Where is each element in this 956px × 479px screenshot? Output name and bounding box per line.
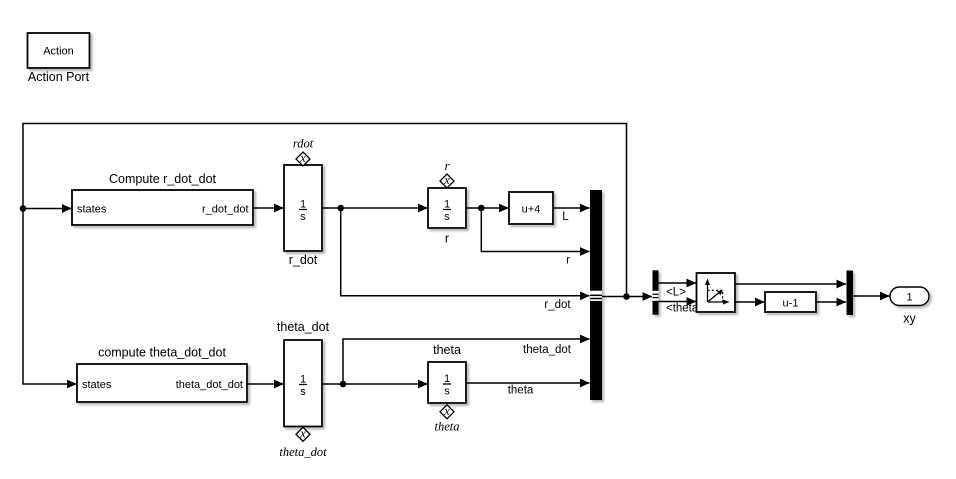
gain block u-1 (765, 292, 816, 312)
wire bus selector out <L> (659, 282, 697, 284)
svg-text:states: states (82, 379, 112, 391)
subsystem compute theta_dot_dot (77, 346, 247, 403)
svg-text:r: r (566, 255, 570, 267)
svg-text:s: s (444, 386, 450, 398)
integrator theta (428, 343, 466, 403)
icon horizontal axis (708, 301, 727, 303)
wire r_dot branch to Mux input 3 (341, 208, 590, 296)
logging badge integrator theta_dot (296, 426, 310, 441)
wire feedback loop from mux output back to subsystem inputs (23, 124, 627, 385)
svg-text:r_dot: r_dot (544, 299, 571, 311)
wire polar out2 to u-1 (735, 301, 765, 303)
junction node mux output / feedback (623, 293, 630, 300)
logging badge integrator r_dot (296, 151, 310, 166)
svg-text:s: s (300, 386, 306, 398)
svg-text:u+4: u+4 (522, 204, 541, 216)
wire u-1 to Mux2 (816, 301, 846, 303)
junction node states branch (20, 205, 27, 212)
svg-text:r_dot: r_dot (289, 253, 318, 267)
svg-text:Action: Action (43, 46, 74, 58)
junction node r_dot (337, 205, 344, 212)
icon dashed coords (708, 290, 723, 302)
svg-text:<L>: <L> (666, 287, 686, 299)
svg-text:1: 1 (300, 199, 306, 211)
gain block u+4 (509, 192, 553, 224)
svg-text:theta: theta (508, 385, 534, 397)
wire theta_dot branch to Mux input 4 (343, 339, 590, 384)
svg-text:1: 1 (906, 292, 912, 304)
integrator theta_dot (277, 320, 330, 427)
junction node theta_dot (340, 381, 347, 388)
Mux2 bar (847, 271, 854, 316)
svg-text:r: r (445, 159, 450, 173)
integrator r (428, 188, 466, 246)
integrator r_dot (284, 165, 322, 267)
wire polar out1 to Mux2 (735, 283, 846, 285)
icon diagonal vector (708, 292, 721, 302)
Action Port block (28, 33, 90, 68)
wire integrator r to u+4 (466, 207, 509, 209)
svg-text:compute theta_dot_dot: compute theta_dot_dot (98, 346, 226, 360)
subsystem Compute r_dot_dot (72, 172, 253, 225)
svg-text:L: L (562, 211, 569, 223)
svg-text:theta: theta (433, 343, 461, 357)
svg-text:theta_dot_dot: theta_dot_dot (176, 379, 243, 391)
junction node r (478, 205, 485, 212)
svg-text:s: s (300, 211, 306, 223)
svg-text:Compute r_dot_dot: Compute r_dot_dot (109, 172, 217, 186)
logging badge integrator theta (440, 404, 454, 419)
wire bus selector out <theta> (659, 301, 697, 303)
polar to cartesian block (697, 273, 736, 312)
logging badge integrator r (440, 173, 454, 188)
wire Mux1 to Bus Selector (602, 296, 652, 298)
svg-text:states: states (77, 204, 107, 216)
svg-text:xy: xy (903, 312, 916, 326)
Mux1 bar (590, 190, 602, 400)
wire u+4 to Mux input 1 (553, 207, 590, 209)
wire compute theta_dot_dot to integrator theta_dot (247, 383, 284, 385)
outport 1 xy (890, 287, 929, 306)
svg-text:theta_dot: theta_dot (277, 320, 330, 334)
svg-text:rdot: rdot (293, 137, 314, 151)
svg-text:1: 1 (444, 373, 450, 385)
icon vertical axis (707, 282, 709, 303)
svg-text:theta_dot: theta_dot (523, 344, 572, 356)
svg-text:r_dot_dot: r_dot_dot (202, 204, 248, 216)
wire Compute r_dot_dot to Integrator r_dot (253, 207, 284, 209)
wire integrator theta to Mux input 5 (466, 382, 590, 384)
svg-text:x: x (299, 426, 306, 440)
wire Integrator r_dot to Integrator r (322, 207, 428, 209)
Bus Selector bar (653, 270, 659, 315)
svg-text:theta_dot: theta_dot (279, 445, 327, 459)
svg-text:x: x (443, 404, 450, 418)
svg-text:1: 1 (444, 199, 450, 211)
wire Mux2 to outport xy (853, 295, 890, 297)
svg-text:x: x (299, 151, 306, 165)
wire to Compute r_dot_dot states input (23, 208, 72, 210)
svg-text:theta: theta (435, 420, 460, 434)
svg-text:r: r (445, 232, 449, 246)
wire integrator theta_dot to integrator theta (322, 383, 428, 385)
svg-text:s: s (444, 211, 450, 223)
wire r branch to Mux input 2 (481, 208, 589, 252)
svg-text:x: x (443, 173, 450, 187)
svg-text:1: 1 (300, 374, 306, 386)
svg-text:u-1: u-1 (783, 298, 799, 310)
svg-text:Action Port: Action Port (28, 70, 90, 84)
